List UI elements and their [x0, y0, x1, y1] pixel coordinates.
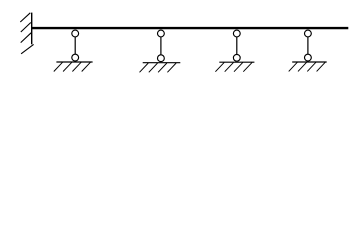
support 3 ground hatch 1: [215, 62, 224, 71]
support 3 ground line: [219, 61, 254, 63]
wall hatch 3: [21, 33, 31, 43]
wall hatch 2: [21, 23, 31, 33]
support 4 link: [307, 37, 309, 55]
support 4 ground hatch 1: [289, 62, 298, 71]
beam: [31, 27, 348, 29]
support 3 top hinge circle: [233, 30, 240, 37]
support 1 ground hatch 1: [54, 62, 63, 71]
support 1 ground hatch 4: [82, 62, 91, 71]
support 1 top hinge circle: [72, 30, 79, 37]
support 1 bottom hinge circle: [72, 54, 79, 61]
support 3 ground hatch 3: [234, 62, 243, 71]
wall hatch 1: [20, 13, 30, 22]
support 2 ground hatch 2: [149, 63, 158, 72]
support 1 ground line: [56, 61, 92, 63]
support 2 top hinge circle: [158, 30, 165, 37]
support 4 ground hatch 3: [307, 62, 316, 71]
support 2 ground hatch 4: [167, 63, 176, 72]
support 1 ground hatch 3: [72, 62, 81, 71]
support 4 top hinge circle: [305, 30, 312, 37]
support 2 ground hatch 1: [140, 63, 149, 72]
support 3 ground hatch 4: [243, 62, 252, 71]
support 4 bottom hinge circle: [305, 54, 312, 61]
support 2 ground hatch 3: [158, 63, 167, 72]
support 4 ground line: [292, 61, 327, 63]
wall hatch 4: [21, 44, 33, 53]
support 1 link: [74, 37, 76, 55]
support 3 ground hatch 2: [225, 62, 234, 71]
support 3 bottom hinge circle: [233, 54, 240, 61]
support 2 link: [160, 37, 162, 55]
support 1 ground hatch 2: [63, 62, 72, 71]
support 4 ground hatch 2: [298, 62, 307, 71]
support 2 ground line: [143, 62, 181, 64]
fixed support wall line: [31, 13, 33, 45]
support 4 ground hatch 4: [317, 62, 326, 71]
support 3 link: [236, 37, 238, 55]
support 2 bottom hinge circle: [158, 55, 165, 62]
